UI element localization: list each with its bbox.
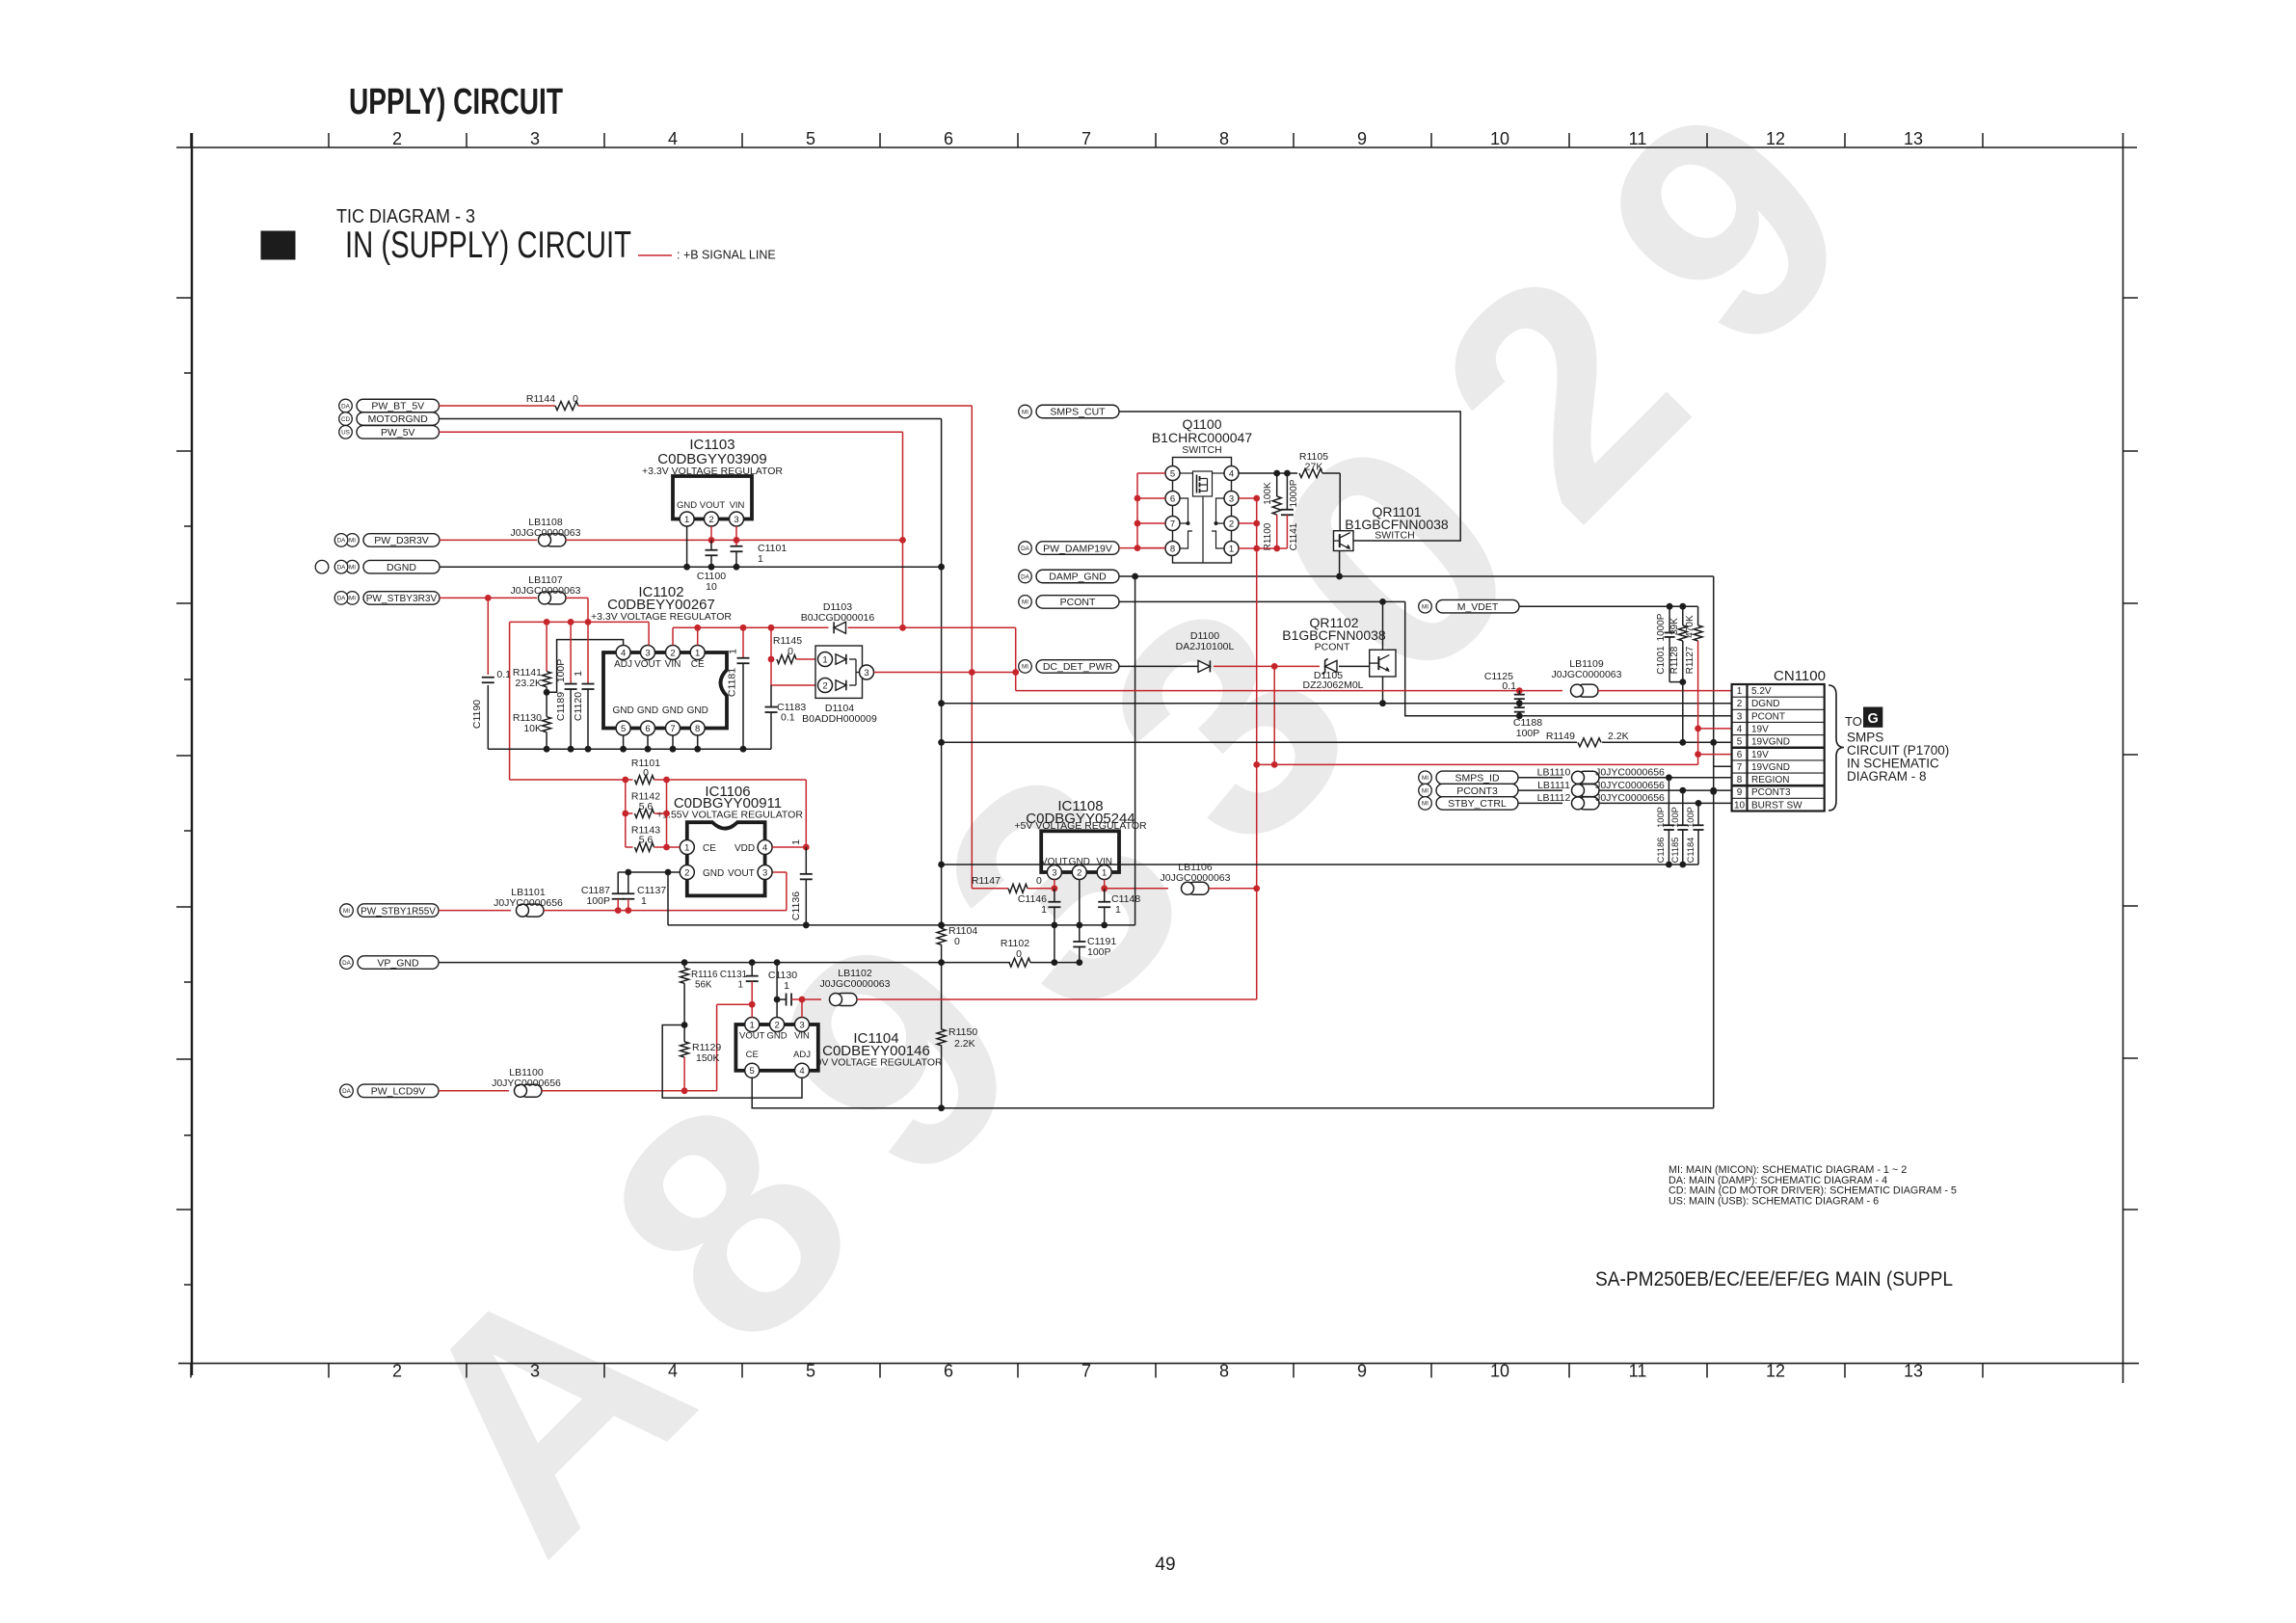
svg-text:DA: DA — [1021, 545, 1030, 552]
svg-text:C1120: C1120 — [573, 692, 584, 721]
svg-text:2: 2 — [684, 867, 689, 878]
wire PCONT to QR1102 — [1382, 601, 1384, 650]
wire IC1103 pin2 down — [710, 526, 712, 544]
resistor R1105 27K — [1299, 469, 1322, 478]
svg-text:MI: MI — [1422, 787, 1428, 794]
connector PW_STBY3R3V (DA MI) — [363, 592, 440, 605]
svg-text:12: 12 — [1766, 1362, 1785, 1381]
wire LB1110 to CN pin8 REGION — [1599, 777, 1732, 779]
svg-text:DC_DET_PWR: DC_DET_PWR — [1043, 661, 1113, 673]
capacitor C1120 1 — [587, 622, 589, 683]
frame top border — [176, 146, 2137, 148]
brace CN1100 — [1829, 685, 1844, 811]
svg-text:MI: MI — [1422, 604, 1428, 611]
wire 19V column — [1256, 498, 1258, 999]
regulator IC1103 body — [673, 476, 752, 519]
svg-text:GND: GND — [677, 500, 697, 511]
svg-text:100P: 100P — [586, 895, 610, 907]
pin 6 IC1102 — [641, 721, 655, 735]
svg-text:4: 4 — [1737, 724, 1743, 734]
wire 19VGND column — [1713, 576, 1715, 1108]
transistor Q1100 body — [1173, 458, 1232, 564]
wire to CN pin7 — [1714, 765, 1732, 767]
svg-text:19V: 19V — [1751, 724, 1769, 734]
svg-text:: +B SIGNAL LINE: : +B SIGNAL LINE — [677, 249, 776, 262]
svg-text:R1149: R1149 — [1546, 731, 1575, 742]
svg-text:8: 8 — [1219, 1362, 1229, 1381]
pin 3 Q1100 — [1224, 492, 1239, 506]
wire LB1109 to CN pin1 — [1598, 690, 1732, 692]
wire R1105 to QR1101 — [1322, 472, 1340, 474]
svg-text:13: 13 — [1904, 1362, 1923, 1381]
svg-text:DA2J10100L: DA2J10100L — [1176, 641, 1235, 652]
svg-text:REGION: REGION — [1751, 775, 1789, 785]
svg-text:4: 4 — [799, 1066, 804, 1077]
svg-text:8: 8 — [695, 724, 700, 734]
svg-text:100P: 100P — [1087, 946, 1111, 958]
svg-text:2: 2 — [774, 1020, 779, 1030]
wire LB1107 to IC1102 rail — [566, 597, 588, 599]
bead LB1111 J0JYC0000656 — [1578, 785, 1599, 797]
svg-text:10: 10 — [1490, 1362, 1509, 1381]
svg-text:1: 1 — [1229, 544, 1234, 554]
resistor R1129 150K — [683, 1025, 685, 1042]
svg-text:7: 7 — [1081, 1362, 1091, 1381]
pin 1 Q1100 — [1224, 542, 1239, 556]
wire 1.55V rail — [544, 910, 787, 912]
svg-text:B0JCGD000016: B0JCGD000016 — [801, 612, 875, 624]
wire PW_BT_5V to R1144 — [440, 405, 556, 407]
transistor QR1101 body — [1334, 531, 1354, 551]
svg-text:PW_5V: PW_5V — [381, 427, 415, 439]
wire Q1100 pins 1-3 to 19V column — [1239, 497, 1257, 499]
svg-text:PW_STBY3R3V: PW_STBY3R3V — [366, 594, 438, 604]
regulator IC1108 body — [1041, 831, 1119, 872]
svg-text:0: 0 — [643, 767, 649, 779]
svg-text:5: 5 — [1170, 468, 1175, 479]
svg-text:23.2K: 23.2K — [516, 678, 542, 689]
svg-text:MI: MI — [349, 596, 356, 602]
svg-text:GND: GND — [687, 705, 708, 716]
pin 1 IC1108 — [1097, 865, 1111, 880]
svg-text:1: 1 — [1115, 904, 1121, 916]
svg-text:DA: DA — [342, 960, 352, 967]
svg-text:SA-PM250EB/EC/EE/EF/EG MAIN (S: SA-PM250EB/EC/EE/EF/EG MAIN (SUPPL — [1595, 1268, 1953, 1290]
connector CN1100 body — [1732, 684, 1825, 811]
wire PW_D3R3V to LB1108 — [440, 539, 537, 541]
svg-text:G: G — [1868, 711, 1879, 727]
svg-text:5: 5 — [806, 1362, 815, 1381]
svg-text:19VGND: 19VGND — [1751, 737, 1790, 748]
svg-text:CN1100: CN1100 — [1774, 668, 1826, 684]
resistor R1116 56K — [683, 963, 685, 969]
svg-text:10: 10 — [1734, 800, 1746, 811]
svg-text:1: 1 — [790, 839, 802, 845]
wire 5.2V line — [1016, 690, 1562, 692]
pin 2 IC1104 — [770, 1018, 785, 1032]
svg-text:1000P: 1000P — [1289, 479, 1299, 507]
svg-text:SMPS_ID: SMPS_ID — [1455, 773, 1500, 785]
bead LB1112 J0JYC0000656 — [1578, 797, 1599, 810]
svg-text:3: 3 — [530, 1362, 540, 1381]
row ticks left short — [184, 372, 192, 374]
wire column R1104 to VP_GND — [941, 945, 943, 963]
connector VP_GND (DA) — [358, 956, 439, 970]
svg-text:2: 2 — [822, 680, 827, 691]
resistor R1141 23.2K — [546, 622, 547, 671]
svg-text:7: 7 — [1737, 762, 1743, 773]
wire to D1104 pin2 — [771, 684, 817, 686]
svg-text:CD: CD — [341, 416, 351, 423]
svg-text:8: 8 — [1219, 129, 1229, 148]
legend +B signal line — [638, 254, 672, 256]
svg-text:MI: MI — [1022, 664, 1028, 671]
connector PW_BT_5V (DA) — [357, 399, 440, 412]
svg-text:R1102: R1102 — [1001, 938, 1029, 949]
wire D1104 out — [874, 672, 1016, 674]
pin 8 IC1102 — [690, 721, 705, 735]
wire IC1104 ADJ loop — [662, 1025, 802, 1099]
svg-text:C1185: C1185 — [1670, 838, 1680, 864]
pin 3 IC1108 — [1047, 865, 1061, 880]
svg-text:6: 6 — [944, 129, 953, 148]
diode D1100 DA2J10100L — [1198, 660, 1210, 672]
regulator IC1102 body — [603, 652, 727, 729]
pin 2 IC1102 — [666, 646, 681, 660]
svg-text:10: 10 — [706, 581, 717, 593]
resistor R1101 0 — [510, 779, 633, 781]
svg-text:0: 0 — [788, 646, 793, 657]
svg-text:3: 3 — [1229, 493, 1234, 504]
connector PW_LCD9V (DA) — [358, 1084, 439, 1098]
bead LB1101 J0JYC0000656 — [522, 904, 544, 917]
svg-text:2: 2 — [670, 648, 675, 658]
svg-text:2: 2 — [392, 129, 402, 148]
svg-text:C1184: C1184 — [1686, 838, 1695, 864]
pin 1 IC1104 — [745, 1018, 760, 1032]
svg-text:5: 5 — [750, 1066, 755, 1077]
svg-text:11: 11 — [1629, 1362, 1647, 1381]
pin 2 IC1103 — [705, 512, 719, 526]
connector PW_DAMP19V (DA) — [1036, 542, 1119, 555]
wire 9V out rail — [542, 1090, 717, 1092]
svg-text:7: 7 — [1170, 519, 1175, 529]
svg-text:1: 1 — [1737, 686, 1743, 697]
black square marker — [261, 231, 295, 259]
connector PW_D3R3V (DA MI) — [363, 534, 440, 547]
svg-text:C1131: C1131 — [720, 970, 747, 980]
svg-text:MI: MI — [1422, 801, 1428, 808]
svg-text:MI: MI — [1022, 409, 1028, 415]
column ticks top — [190, 133, 192, 147]
svg-text:R1100: R1100 — [1263, 522, 1273, 550]
svg-text:PCONT3: PCONT3 — [1456, 785, 1498, 797]
capacitor C1191 100P — [1079, 925, 1081, 942]
svg-text:MI: MI — [343, 908, 350, 915]
pin 7 IC1102 — [666, 721, 681, 735]
svg-text:J0JYC0000656: J0JYC0000656 — [494, 897, 563, 909]
wire DAMP_GND rail — [1119, 575, 1714, 577]
wire red stby vertical — [509, 622, 511, 780]
svg-text:4: 4 — [668, 1362, 678, 1381]
capacitor C1146 1 — [1054, 889, 1055, 902]
connector STBY_CTRL (MI) — [1436, 797, 1518, 811]
svg-text:3: 3 — [1052, 867, 1056, 878]
capacitor C1181 1 — [742, 627, 744, 657]
capacitor C1136 1 — [805, 847, 807, 874]
row ticks left long — [176, 297, 192, 299]
connector PW_STBY1R55V (MI) — [358, 904, 439, 918]
pin 5 IC1102 — [616, 721, 630, 735]
svg-text:2: 2 — [1077, 867, 1081, 878]
wire C1130 to pin3 — [801, 999, 803, 1018]
svg-text:5: 5 — [806, 129, 815, 148]
wire IC1108 pin1 down — [1104, 880, 1106, 889]
svg-text:1: 1 — [684, 515, 689, 525]
svg-text:11: 11 — [1629, 129, 1647, 148]
svg-text:VOUT: VOUT — [634, 659, 661, 670]
wire to LB1102 — [802, 998, 821, 1000]
bead LB1102 J0JGC0000063 — [836, 994, 857, 1006]
svg-text:2: 2 — [1737, 699, 1743, 709]
svg-text:MOTORGND: MOTORGND — [368, 413, 429, 425]
frame bottom border — [178, 1363, 2139, 1365]
svg-text:R1127: R1127 — [1685, 646, 1695, 674]
svg-text:0.1: 0.1 — [1502, 680, 1516, 692]
svg-text:US: US — [341, 430, 350, 437]
svg-text:5: 5 — [621, 724, 626, 734]
svg-text:MI: MI — [1422, 775, 1428, 782]
wire Q1100 internal — [1180, 472, 1193, 474]
svg-text:3: 3 — [1737, 711, 1743, 722]
bead LB1106 J0JGC0000063 — [1188, 882, 1209, 894]
svg-text:PCONT3: PCONT3 — [1751, 787, 1791, 798]
svg-text:GND: GND — [703, 868, 724, 879]
svg-text:LB1111: LB1111 — [1537, 780, 1570, 791]
resistor R1150 2.2K — [937, 1029, 946, 1046]
svg-text:19VGND: 19VGND — [1751, 762, 1790, 773]
resistor R1147 0 — [972, 888, 1008, 890]
svg-text:UPPLY) CIRCUIT: UPPLY) CIRCUIT — [349, 82, 563, 122]
svg-text:ADJ: ADJ — [614, 659, 632, 670]
connector PCONT (MI) — [1036, 596, 1119, 609]
diode D1105 DZ2J062M0L zener — [1325, 660, 1337, 672]
wire IC1108 pin3 down — [1054, 880, 1055, 889]
wire D1100 junction down — [1273, 666, 1275, 764]
svg-text:470K: 470K — [1685, 615, 1695, 638]
bead LB1109 J0JGC0000063 — [1577, 684, 1598, 697]
diode D1103 B0JCGD000016 — [834, 622, 845, 633]
svg-text:19V: 19V — [1751, 750, 1769, 760]
wire PCONT3 to LB1111 — [1518, 789, 1562, 791]
svg-text:7: 7 — [1081, 129, 1091, 148]
svg-text:J0JGC0000063: J0JGC0000063 — [1161, 872, 1231, 884]
svg-text:1: 1 — [784, 980, 789, 992]
svg-text:VP_GND: VP_GND — [377, 957, 419, 969]
wire 5V OR node down — [1015, 627, 1017, 690]
svg-text:4: 4 — [762, 842, 767, 853]
regulator IC1106 body — [687, 822, 765, 895]
wire LB1106 to 19V column — [1209, 888, 1257, 890]
wire Q1100 left feed — [1137, 472, 1165, 474]
svg-text:100P: 100P — [555, 659, 567, 683]
pin 2 IC1106 — [680, 865, 694, 880]
wire IC1104 CE to rail — [752, 1078, 1713, 1107]
capacitor C1148 1 — [1104, 889, 1106, 902]
wire PW_BT_5V net — [578, 405, 972, 407]
svg-text:27K: 27K — [1305, 462, 1323, 473]
svg-text:+3.3V VOLTAGE REGULATOR: +3.3V VOLTAGE REGULATOR — [591, 611, 732, 623]
svg-text:4: 4 — [621, 648, 626, 658]
svg-text:BURST SW: BURST SW — [1751, 800, 1802, 811]
svg-text:C1186: C1186 — [1656, 838, 1666, 864]
svg-text:C1189: C1189 — [555, 692, 567, 721]
capacitor C1189 100P — [570, 622, 572, 683]
svg-text:GND: GND — [662, 705, 683, 716]
wire PW_STBY1R55V to LB1101 — [439, 910, 511, 912]
resistor R1102 0 — [1009, 958, 1030, 967]
svg-text:PCONT: PCONT — [1060, 597, 1096, 608]
capacitor C1130 1 — [777, 998, 786, 1000]
node DGND extra circle — [315, 560, 329, 573]
wire R1102 to C1191 — [1030, 962, 1080, 964]
svg-text:DA: DA — [337, 538, 347, 545]
svg-text:B1CHRC000047: B1CHRC000047 — [1152, 430, 1252, 445]
row ticks right — [2123, 297, 2139, 299]
pin 3 IC1103 — [730, 512, 744, 526]
pin 3 IC1104 — [795, 1018, 810, 1032]
svg-text:DA: DA — [1021, 573, 1030, 580]
wire caps ground rail — [942, 864, 1698, 865]
svg-text:6: 6 — [1170, 493, 1175, 504]
wire D1105 to QR1102 — [1339, 665, 1370, 667]
svg-text:DA: DA — [341, 403, 351, 410]
svg-text:VIN: VIN — [665, 659, 681, 670]
connector DC_DET_PWR (MI) — [1036, 660, 1119, 674]
capacitor C1100 10 — [710, 540, 712, 549]
svg-text:100P: 100P — [1670, 807, 1680, 828]
wire 19VGND R1149 line — [942, 741, 1577, 743]
wire IC1108 pin2 down — [1079, 880, 1081, 925]
svg-text:GND: GND — [612, 705, 633, 716]
resistor R1100 100K — [1276, 473, 1278, 496]
bead LB1100 J0JYC0000656 — [521, 1084, 542, 1097]
pin 2 IC1108 — [1072, 865, 1086, 880]
resistor R1145 0 — [770, 627, 772, 685]
svg-text:LB1110: LB1110 — [1537, 767, 1571, 779]
capacitor C1101 1 — [731, 545, 743, 547]
wire D1100 to D1105 — [1214, 665, 1320, 667]
svg-text:J0JYC0000656: J0JYC0000656 — [1595, 792, 1665, 804]
svg-text:2.2K: 2.2K — [1608, 731, 1629, 742]
svg-text:R1116: R1116 — [691, 970, 718, 980]
watermark A8933029 — [339, 0, 1956, 1613]
svg-text:100P: 100P — [1516, 728, 1540, 739]
resistor R1130 10K — [546, 692, 547, 716]
wire R1127 to 19V feed — [1697, 641, 1699, 765]
svg-text:J0JGC0000063: J0JGC0000063 — [511, 585, 581, 597]
svg-text:C1141: C1141 — [1289, 522, 1299, 550]
svg-text:1: 1 — [1041, 904, 1047, 916]
pin 5 Q1100 — [1165, 466, 1180, 481]
svg-text:2: 2 — [392, 1362, 402, 1381]
svg-text:9: 9 — [1357, 1362, 1367, 1381]
svg-text:10K: 10K — [523, 723, 542, 734]
svg-text:0: 0 — [954, 936, 960, 947]
svg-text:C1181: C1181 — [727, 668, 738, 697]
svg-text:39K: 39K — [1669, 618, 1680, 635]
svg-text:C1001: C1001 — [1656, 646, 1667, 675]
capacitor C1185 100P — [1682, 790, 1684, 825]
column ticks bottom — [190, 1364, 192, 1378]
capacitor C1001 1000P — [1669, 606, 1670, 632]
svg-text:SWITCH: SWITCH — [1375, 530, 1414, 542]
svg-text:5.6: 5.6 — [639, 801, 654, 812]
svg-text:PW_DAMP19V: PW_DAMP19V — [1043, 543, 1112, 554]
wire 19V to CN pin4 — [1698, 728, 1732, 730]
diode bridge D1104 B0ADDH000009 — [815, 646, 863, 698]
svg-text:CE: CE — [703, 843, 716, 854]
svg-text:2: 2 — [708, 515, 713, 525]
wire PCONT — [1119, 600, 1405, 602]
wire MOTORGND / ground column — [941, 419, 943, 929]
wire GND rail under IC1106 — [668, 924, 1135, 926]
transistor QR1102 body — [1370, 650, 1396, 677]
svg-text:GND: GND — [637, 705, 658, 716]
svg-text:6: 6 — [1737, 750, 1743, 760]
connector DAMP_GND (DA) — [1036, 570, 1119, 583]
svg-text:CE: CE — [691, 659, 705, 670]
wire ADJ pin4 loop — [547, 640, 624, 693]
svg-text:0.1: 0.1 — [781, 712, 795, 724]
svg-text:6: 6 — [645, 724, 650, 734]
svg-text:LB1112: LB1112 — [1537, 792, 1571, 804]
svg-text:J0JYC0000656: J0JYC0000656 — [1595, 780, 1665, 791]
svg-text:1: 1 — [728, 649, 739, 654]
svg-text:J0JGC0000063: J0JGC0000063 — [511, 527, 581, 539]
wire VP_GND to C1130 — [776, 963, 778, 1018]
connector M_VDET (MI) — [1436, 599, 1519, 613]
capacitor C1184 100P — [1697, 803, 1699, 824]
wire VP_GND to R1150 — [941, 963, 943, 1030]
resistor R1142 5.6 — [625, 780, 627, 847]
pin 1 IC1106 — [680, 840, 694, 855]
connector DGND (DA MI) — [363, 560, 440, 573]
svg-text:PW_D3R3V: PW_D3R3V — [374, 535, 429, 546]
svg-text:DA: DA — [342, 1088, 352, 1095]
svg-text:1: 1 — [641, 895, 647, 907]
svg-text:SWITCH: SWITCH — [1182, 444, 1221, 456]
connector PCONT3 (MI) — [1436, 784, 1518, 797]
svg-text:MI: MI — [349, 565, 356, 572]
pin 3 IC1102 — [641, 646, 655, 660]
svg-text:R1150: R1150 — [948, 1026, 977, 1038]
svg-text:0: 0 — [1036, 875, 1042, 887]
svg-text:5.2V: 5.2V — [1751, 686, 1772, 697]
pin 7 Q1100 — [1165, 517, 1180, 531]
svg-text:PW_BT_5V: PW_BT_5V — [371, 401, 424, 412]
capacitor C1131 1 — [751, 963, 753, 976]
svg-text:9: 9 — [1737, 787, 1743, 798]
svg-text:MI: MI — [349, 538, 356, 545]
svg-text:1: 1 — [573, 671, 584, 677]
svg-text:1000P: 1000P — [1656, 613, 1667, 641]
wire PW_STBY3R3V to LB1107 — [440, 597, 537, 599]
svg-text:VOUT: VOUT — [728, 868, 755, 879]
svg-text:J0JGC0000063: J0JGC0000063 — [820, 978, 891, 990]
wire 19V feed line — [1257, 763, 1698, 765]
svg-text:1: 1 — [750, 1020, 755, 1030]
